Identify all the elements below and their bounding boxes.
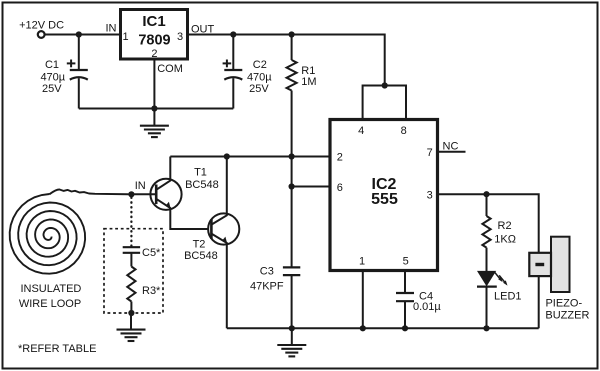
junction C2/rail — [230, 31, 236, 37]
svg-text:PIEZO-: PIEZO- — [545, 297, 582, 309]
svg-text:1: 1 — [123, 31, 129, 43]
svg-text:C3: C3 — [260, 266, 274, 278]
junction T2 collector/pin2 — [224, 153, 230, 159]
svg-text:INSULATED: INSULATED — [20, 283, 81, 295]
wire C3 to ground bus — [291, 275, 293, 328]
svg-text:*REFER TABLE: *REFER TABLE — [18, 343, 96, 355]
junction pins 4-8 supply — [382, 82, 388, 88]
piezo buzzer PZ1 — [529, 237, 589, 329]
wire ground bus C1-C2 — [79, 108, 234, 110]
svg-text:470µ: 470µ — [40, 71, 65, 83]
svg-text:IN: IN — [135, 180, 146, 192]
ground (main) — [277, 328, 306, 356]
wire +12V input rail to IC1 IN — [45, 34, 121, 36]
capacitor C3 47KPF — [250, 266, 300, 293]
resistor R1 1M — [287, 35, 317, 91]
svg-text:1KΩ: 1KΩ — [494, 234, 516, 246]
junction COM/ground — [151, 105, 157, 111]
svg-text:WIRE LOOP: WIRE LOOP — [19, 298, 81, 310]
svg-text:IC1: IC1 — [142, 13, 165, 30]
svg-text:BC548: BC548 — [185, 179, 219, 191]
wire R1 to pin2/pin6 node and C3 — [291, 91, 293, 268]
svg-text:COM: COM — [157, 63, 183, 75]
svg-text:470µ: 470µ — [247, 71, 272, 83]
svg-text:555: 555 — [371, 191, 398, 208]
junction R1/pin2 — [289, 153, 295, 159]
junction R2/pin3 — [483, 191, 489, 197]
wire emitter/ground bus — [227, 327, 539, 329]
svg-text:C2: C2 — [253, 59, 267, 71]
ground (below IC1) — [140, 109, 169, 138]
svg-text:6: 6 — [337, 182, 343, 194]
svg-text:2: 2 — [151, 48, 157, 60]
wire IC1 OUT to VCC rail — [188, 35, 385, 86]
junction C4/bus — [402, 325, 408, 331]
capacitor C2 470µ 25V — [223, 35, 273, 109]
node +12V DC terminal — [38, 31, 45, 38]
capacitor C5* — [123, 247, 161, 267]
resistor R3* — [127, 267, 161, 314]
svg-text:25V: 25V — [42, 83, 62, 95]
wire pin 1 to bus — [362, 271, 364, 329]
svg-text:BC548: BC548 — [184, 250, 218, 262]
wire pin 6 link — [292, 186, 330, 188]
svg-text:+12V DC: +12V DC — [19, 20, 64, 32]
svg-text:LED1: LED1 — [494, 291, 522, 303]
svg-text:4: 4 — [358, 125, 364, 137]
junction LED/bus — [483, 325, 489, 331]
dashed option box — [104, 229, 163, 313]
node IN junction — [128, 191, 134, 197]
insulated wire loop L1 — [10, 189, 132, 309]
svg-text:C5*: C5* — [142, 247, 161, 259]
svg-text:25V: 25V — [249, 83, 269, 95]
transistor T1 BC548 — [133, 157, 219, 230]
svg-text:2: 2 — [337, 152, 343, 164]
junction C3/bus — [289, 325, 295, 331]
svg-text:T1: T1 — [194, 166, 207, 178]
wire collectors to pin 2 — [170, 156, 330, 158]
svg-text:IN: IN — [106, 23, 117, 35]
svg-text:T2: T2 — [193, 239, 206, 251]
svg-text:0.01µ: 0.01µ — [413, 301, 441, 313]
svg-text:47KPF: 47KPF — [250, 281, 284, 293]
regulator IC1 7809 — [106, 10, 215, 76]
transistor T2 BC548 — [184, 157, 239, 329]
LED LED1 — [477, 248, 522, 329]
wire dotted feed to C5 — [130, 198, 132, 247]
junction R1/pin6 — [289, 183, 295, 189]
svg-text:R2: R2 — [498, 220, 512, 232]
timer IC2 555 — [330, 120, 438, 271]
junction C1/rail — [76, 31, 82, 37]
svg-text:R3*: R3* — [142, 285, 161, 297]
svg-text:7809: 7809 — [138, 33, 170, 49]
svg-text:1M: 1M — [301, 76, 316, 88]
svg-text:NC: NC — [443, 140, 459, 152]
svg-text:3: 3 — [427, 189, 433, 201]
svg-text:7: 7 — [427, 147, 433, 159]
capacitor C4 0.01µ — [396, 271, 441, 329]
svg-text:3: 3 — [177, 31, 183, 43]
svg-text:BUZZER: BUZZER — [545, 309, 589, 321]
junction R1/rail — [289, 31, 295, 37]
wire supply bracket to pins 4 and 8 — [363, 86, 406, 121]
wire IC1 COM to ground bus — [153, 59, 155, 109]
junction pin1/bus — [360, 325, 366, 331]
resistor R2 1KΩ — [482, 194, 516, 247]
wire pin 3 output — [438, 194, 539, 253]
ground (below R3) — [117, 313, 146, 341]
svg-text:C1: C1 — [45, 59, 59, 71]
capacitor C1 470µ 25V — [40, 35, 87, 109]
svg-text:8: 8 — [401, 125, 407, 137]
wire pin 7 NC stub — [438, 151, 466, 153]
svg-text:5: 5 — [403, 255, 409, 267]
svg-text:1: 1 — [359, 255, 365, 267]
junction R3/box edge — [128, 310, 134, 316]
